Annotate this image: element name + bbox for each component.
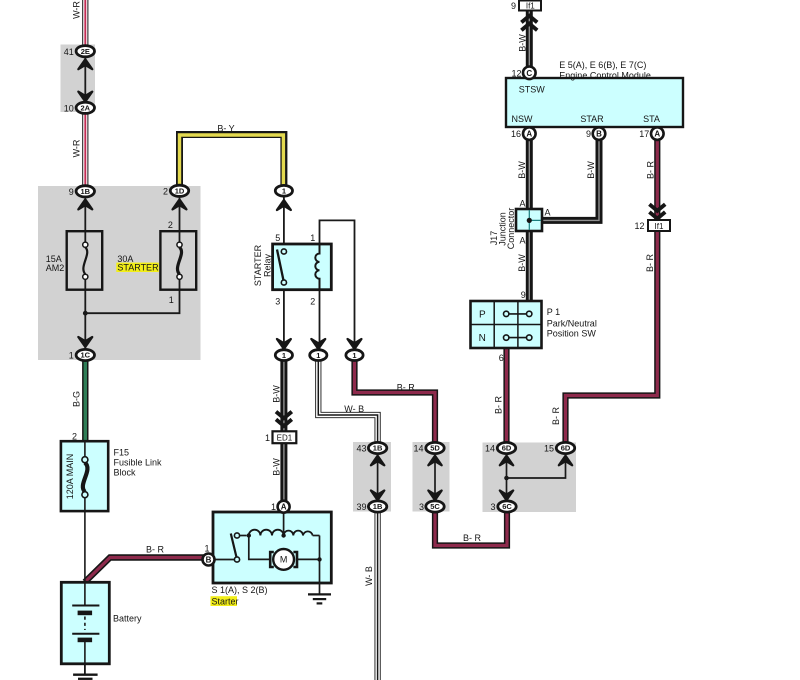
svg-text:STARTER: STARTER <box>117 263 159 273</box>
label 9 If1 top <box>511 1 516 11</box>
label W-R mid <box>72 139 82 157</box>
svg-text:14: 14 <box>485 443 495 453</box>
svg-text:2E: 2E <box>81 47 90 56</box>
svg-text:B-G: B-G <box>72 391 82 407</box>
label STA <box>643 114 660 124</box>
starter relay box <box>273 244 332 290</box>
label 14 6D <box>485 443 495 453</box>
svg-text:41: 41 <box>64 47 74 57</box>
connector oval 1 relay out b <box>310 350 327 361</box>
svg-text:39: 39 <box>356 502 366 512</box>
svg-text:Battery: Battery <box>113 614 142 624</box>
svg-text:ED1: ED1 <box>277 434 293 443</box>
svg-text:3: 3 <box>275 297 280 307</box>
svg-text:2: 2 <box>163 186 168 196</box>
label 9 PN pin <box>521 290 526 300</box>
svg-text:STARTER: STARTER <box>253 244 263 286</box>
label B-R above 14 6D <box>494 395 504 414</box>
svg-text:B- R: B- R <box>146 545 165 555</box>
label 1 fuse starter bottom <box>169 295 174 305</box>
arrow up below relay top connector <box>277 200 291 210</box>
If1 box right <box>648 220 670 231</box>
svg-text:Position SW: Position SW <box>547 329 597 339</box>
label NSW <box>512 114 534 124</box>
label Battery <box>113 614 142 624</box>
relay coil <box>315 244 319 290</box>
battery symbol <box>72 582 99 663</box>
svg-text:2: 2 <box>168 220 173 230</box>
svg-text:16: 16 <box>511 129 521 139</box>
svg-text:9: 9 <box>69 187 74 197</box>
svg-text:17: 17 <box>639 129 649 139</box>
connector oval 1 relay top <box>275 185 292 196</box>
svg-text:B- R: B- R <box>463 533 482 543</box>
svg-text:A: A <box>519 236 525 246</box>
wire W-B relay to 1B <box>318 356 377 444</box>
svg-text:Starter: Starter <box>212 596 239 606</box>
svg-text:1B: 1B <box>373 502 383 511</box>
svg-text:N: N <box>479 333 486 344</box>
splice arrows 1B pair <box>371 456 384 501</box>
wire W-R upper <box>82 0 88 47</box>
arrow down above 1C <box>78 337 92 347</box>
label 1 pin 1C <box>69 351 74 361</box>
label 12 pin C <box>511 69 521 79</box>
arrow down above relay out connector 2 <box>311 339 325 349</box>
starter motor M <box>270 549 297 570</box>
svg-text:STA: STA <box>643 114 660 124</box>
label A below J17 <box>519 236 525 246</box>
svg-text:Block: Block <box>114 468 137 478</box>
svg-text:C: C <box>526 69 532 78</box>
svg-text:Park/Neutral: Park/Neutral <box>547 318 597 328</box>
svg-text:Relay: Relay <box>263 253 273 277</box>
svg-text:3: 3 <box>419 502 424 512</box>
svg-text:1C: 1C <box>81 351 91 360</box>
svg-text:9: 9 <box>586 129 591 139</box>
splice oval 5D <box>426 442 444 453</box>
fuse 15A AM2 <box>67 231 103 290</box>
connector oval 1B fuse <box>76 186 94 197</box>
label F15 fusible link block <box>114 448 163 478</box>
svg-text:Engine Control Module: Engine Control Module <box>559 70 651 80</box>
ECM pin A circle NSW <box>523 127 536 140</box>
label B-W STAR <box>586 161 596 179</box>
svg-text:B- Y: B- Y <box>217 124 234 134</box>
label 12 If1 right <box>634 221 644 231</box>
splice oval 1B bottom <box>368 501 386 512</box>
svg-text:STSW: STSW <box>519 85 546 95</box>
wire battery to ground <box>84 664 86 675</box>
svg-text:43: 43 <box>356 443 366 453</box>
svg-text:1: 1 <box>316 351 320 360</box>
svg-text:W- B: W- B <box>364 566 374 586</box>
splice panel 1B <box>353 442 391 512</box>
splice arrows 6D-6C pair <box>500 456 513 501</box>
svg-text:1: 1 <box>169 295 174 305</box>
label 3 5C <box>419 502 424 512</box>
svg-text:P: P <box>479 310 486 321</box>
svg-text:1: 1 <box>282 187 286 196</box>
svg-text:P 1: P 1 <box>547 307 560 317</box>
svg-text:B: B <box>206 556 212 565</box>
splice oval 5C <box>426 501 444 512</box>
label 2 fuse starter top <box>168 220 173 230</box>
label W-B bottom <box>364 566 374 586</box>
wire B-Y <box>180 135 284 192</box>
svg-text:NSW: NSW <box>512 114 534 124</box>
svg-text:B-W: B-W <box>517 161 527 179</box>
label 39 <box>356 502 366 512</box>
label B-W J17 lower <box>517 254 527 272</box>
label 1 ED1 <box>265 433 270 443</box>
wire splice link 5D-5C <box>434 462 436 494</box>
label 41 <box>64 47 74 57</box>
label STARTER Relay <box>253 244 273 286</box>
svg-text:F15: F15 <box>114 448 130 458</box>
wire splice link 6D-6C <box>504 462 565 494</box>
wire B-R relay to 5D <box>355 356 436 444</box>
svg-text:9: 9 <box>511 1 516 11</box>
svg-text:6D: 6D <box>502 444 512 453</box>
wire B-W J17 to P/N SW <box>526 230 533 302</box>
svg-text:1: 1 <box>265 433 270 443</box>
If1 box top <box>519 1 541 11</box>
connector oval 1 relay out c <box>346 350 363 361</box>
svg-text:14: 14 <box>413 443 423 453</box>
J17 junction connector box <box>516 209 542 231</box>
svg-text:B- R: B- R <box>645 253 655 272</box>
label A right J17 <box>545 208 551 218</box>
label B-R STA <box>646 160 656 179</box>
label N <box>479 333 486 344</box>
svg-text:A: A <box>545 208 551 218</box>
svg-text:B- R: B- R <box>646 160 656 179</box>
label B-W relay to ED1 <box>272 385 282 403</box>
wire jumper 2E-2A <box>84 55 86 103</box>
svg-text:2: 2 <box>310 297 315 307</box>
starter pin B circle <box>203 554 215 566</box>
double arrow up below If1 top <box>521 16 537 30</box>
starter pin A circle <box>278 501 290 513</box>
P/N position switch box <box>471 301 542 348</box>
splice oval 6D left <box>497 442 515 453</box>
label B-W NSW <box>517 161 527 179</box>
splice arrows 5D-5C pair <box>428 456 441 501</box>
double arrow down above If1 right <box>649 204 665 218</box>
ECM box <box>506 78 683 127</box>
svg-text:B-W: B-W <box>272 458 282 476</box>
splice panel 5D/5C <box>413 442 450 512</box>
label 17 <box>639 129 649 139</box>
svg-text:6: 6 <box>499 353 504 363</box>
svg-text:2A: 2A <box>81 104 91 113</box>
svg-text:B- R: B- R <box>551 406 561 425</box>
label 2 F15 <box>72 431 77 441</box>
ECM pin B circle STAR <box>593 127 606 140</box>
wire relay pin5 feed <box>283 196 285 249</box>
ECM pin C circle <box>523 67 536 80</box>
wire fuse AM2 feed <box>84 195 86 243</box>
wire fuse outputs junction <box>83 278 180 351</box>
label B-R relay branch <box>397 383 416 393</box>
label relay pin 5 <box>275 233 280 243</box>
svg-text:W-R: W-R <box>72 139 82 157</box>
arrow down above relay out connector 1 <box>277 339 291 349</box>
relay switch <box>277 249 287 285</box>
svg-text:If1: If1 <box>526 2 535 11</box>
wire B-R 5C to 6C <box>435 510 507 546</box>
ECM pin A circle STA <box>651 127 664 140</box>
svg-text:5D: 5D <box>430 444 440 453</box>
label B-R above 15 6D <box>551 406 561 425</box>
wire W-R lower <box>82 104 88 191</box>
wire B-G <box>82 355 88 442</box>
svg-text:6D: 6D <box>561 444 571 453</box>
svg-text:5: 5 <box>275 233 280 243</box>
svg-text:E 5(A), E 6(B), E 7(C): E 5(A), E 6(B), E 7(C) <box>559 60 646 70</box>
svg-text:A: A <box>526 130 532 139</box>
svg-text:STAR: STAR <box>580 114 604 124</box>
wire B-W ED1 to starter A <box>280 443 287 502</box>
label 16 <box>511 129 521 139</box>
wire B-R P/N SW to 6D <box>503 349 509 445</box>
svg-text:1: 1 <box>204 544 209 554</box>
svg-text:Fusible Link: Fusible Link <box>114 458 163 468</box>
label 6 PN pin <box>499 353 504 363</box>
label Starter highlighted <box>211 596 239 606</box>
svg-text:Connector: Connector <box>506 208 516 250</box>
wire splice link 1B <box>377 462 379 494</box>
wire relay pin3 out <box>283 285 285 351</box>
label relay pin 2 <box>310 297 315 307</box>
connector oval 1C fuse <box>76 349 94 360</box>
svg-text:1: 1 <box>352 351 356 360</box>
label 9 STAR <box>586 129 591 139</box>
svg-text:1: 1 <box>310 233 315 243</box>
svg-text:B: B <box>596 130 602 139</box>
connector oval 2A <box>76 102 94 113</box>
label relay pin 1 <box>310 233 315 243</box>
ED1 connector box <box>273 431 297 443</box>
connector oval 1 relay out a <box>275 350 292 361</box>
F15 fusible link block <box>61 441 108 511</box>
fuse block panel <box>38 186 201 360</box>
label S1 S2 <box>212 585 268 595</box>
splice oval 6D right <box>556 442 574 453</box>
label 10 <box>64 103 74 113</box>
arrow up below 2E <box>78 59 92 69</box>
label W-R top <box>72 1 82 19</box>
svg-text:5C: 5C <box>430 502 440 511</box>
label 3 6C <box>490 502 495 512</box>
label 9 pin 1B <box>69 187 74 197</box>
wire B-W If1 to ECM C <box>526 11 533 67</box>
svg-text:9: 9 <box>521 290 526 300</box>
svg-text:3: 3 <box>490 502 495 512</box>
svg-text:12: 12 <box>511 69 521 79</box>
label B-R bottom link <box>463 533 482 543</box>
wire fuse STARTER feed <box>179 195 181 243</box>
label B-Y <box>217 124 234 134</box>
connector oval 1D fuse <box>170 185 188 196</box>
label 15 6D <box>544 443 554 453</box>
wire B-W relay to ED1 <box>280 356 287 432</box>
wire relay pin2 out <box>319 290 321 351</box>
battery box <box>61 582 109 664</box>
wire B-W ECM STAR to J17 <box>542 139 599 220</box>
label A above J17 <box>519 199 525 209</box>
svg-text:120A MAIN: 120A MAIN <box>65 454 75 500</box>
splice oval 1B top <box>368 442 386 453</box>
svg-text:A: A <box>519 199 525 209</box>
label 15A AM2 <box>46 254 65 273</box>
label B-R battery wire <box>146 545 165 555</box>
svg-text:B- R: B- R <box>397 383 416 393</box>
svg-text:AM2: AM2 <box>46 263 65 273</box>
label 120A MAIN <box>65 454 75 500</box>
label 2 pin 1D <box>163 186 168 196</box>
label 14 5D <box>413 443 423 453</box>
svg-text:12: 12 <box>634 221 644 231</box>
label relay pin 3 <box>275 297 280 307</box>
arrow up below 1B <box>78 199 92 209</box>
svg-text:S 1(A), S 2(B): S 1(A), S 2(B) <box>212 585 268 595</box>
label 1 starter B <box>204 544 209 554</box>
svg-text:15: 15 <box>544 443 554 453</box>
wire F15 to battery <box>84 511 86 583</box>
svg-text:10: 10 <box>64 103 74 113</box>
connector oval 2E <box>76 46 94 57</box>
fuse 30A STARTER <box>160 231 196 290</box>
label J17 junction connector <box>489 208 516 250</box>
splice oval 6C <box>498 501 516 512</box>
svg-text:A: A <box>654 130 660 139</box>
label W-B horizontal <box>344 404 364 414</box>
svg-text:2: 2 <box>72 431 77 441</box>
svg-text:B-W: B-W <box>517 254 527 272</box>
arrow up below 1D <box>173 199 187 209</box>
label P1 park neutral <box>547 307 597 339</box>
label B-W If1 wire <box>517 34 527 52</box>
svg-text:1B: 1B <box>373 444 383 453</box>
starter box <box>213 512 331 583</box>
svg-text:1: 1 <box>69 351 74 361</box>
label ECM header <box>559 60 651 80</box>
wire B-W ECM NSW to J17 <box>526 139 533 210</box>
arrow down above relay out connector 3 <box>348 339 362 349</box>
svg-text:M: M <box>280 555 288 565</box>
svg-text:1: 1 <box>271 502 276 512</box>
svg-text:B-W: B-W <box>272 385 282 403</box>
label P <box>479 310 486 321</box>
svg-text:1B: 1B <box>81 187 91 196</box>
svg-text:B-W: B-W <box>586 161 596 179</box>
starter internals <box>214 513 321 584</box>
svg-text:B-W: B-W <box>517 34 527 52</box>
label STSW <box>519 85 546 95</box>
svg-text:If1: If1 <box>655 222 664 231</box>
label B-G <box>72 391 82 407</box>
double arrow down above ED1 <box>276 412 292 426</box>
label 30A STARTER highlighted <box>116 254 159 273</box>
svg-text:W-R: W-R <box>72 1 82 19</box>
label B-W ED1 to A <box>272 458 282 476</box>
svg-text:W- B: W- B <box>344 404 364 414</box>
svg-text:1D: 1D <box>175 187 185 196</box>
arrow down above 2A <box>78 92 92 102</box>
svg-text:6C: 6C <box>502 502 512 511</box>
wire relay pin1 loop <box>320 220 355 351</box>
label 43 <box>356 443 366 453</box>
battery ground <box>73 675 98 679</box>
label B-R If1 lower <box>645 253 655 272</box>
wire B-R ECM STA to If1 to 6D <box>566 139 658 444</box>
splice panel 6D/6C <box>483 443 577 513</box>
wire W-B below 1B splice <box>375 510 381 680</box>
svg-text:A: A <box>281 503 287 512</box>
connector panel 2E/2A <box>61 45 96 113</box>
label 1 starter A <box>271 502 276 512</box>
starter ground <box>308 583 331 603</box>
label STAR <box>580 114 604 124</box>
wire B-R battery to starter <box>85 558 204 583</box>
svg-text:1: 1 <box>282 351 286 360</box>
svg-text:B- R: B- R <box>494 395 504 414</box>
splice arrow below 15 6D <box>559 456 572 466</box>
